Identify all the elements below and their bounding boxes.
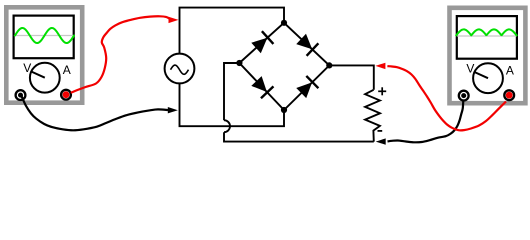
wire: bridge right vertex to resistor top	[329, 65, 374, 89]
wire: left meter red lead	[71, 16, 170, 93]
diode D2 (top-to-right edge, cathode at right vertex)	[296, 34, 318, 56]
junction node: bridge top vertex	[281, 20, 287, 26]
resistor R-load	[365, 90, 380, 142]
right meter body	[450, 8, 526, 103]
arrowhead: right black probe tip	[376, 138, 386, 144]
AC source V1	[165, 54, 195, 84]
diode D3 (left-to-bottom edge, cathode at bottom vertex)	[251, 76, 273, 98]
left meter red terminal	[61, 90, 71, 100]
wire hop over AC bottom rail	[224, 120, 230, 132]
wire: right meter red lead	[387, 66, 506, 130]
junction node: bridge bottom vertex	[281, 107, 287, 113]
right meter dial	[473, 63, 503, 93]
left meter dial	[30, 63, 60, 93]
wire: right meter black lead	[388, 101, 464, 143]
diode D4 (bottom-to-right edge, cathode at right vertex)	[296, 76, 318, 98]
left meter black terminal	[16, 90, 26, 100]
arrowhead: right red probe tip	[375, 63, 385, 69]
right meter black terminal	[459, 91, 469, 101]
wire: AC source bottom to bridge bottom vertex	[180, 83, 285, 126]
minus polarity label	[378, 130, 383, 132]
plus polarity label	[378, 87, 386, 95]
arrowhead: left black probe tip	[168, 107, 178, 113]
right meter screen	[456, 16, 517, 59]
svg-text:A: A	[506, 63, 514, 77]
left meter screen	[14, 16, 74, 59]
arrowhead: left red probe tip	[169, 17, 179, 23]
diode D1 (left-to-top edge, cathode at top vertex)	[251, 31, 273, 53]
junction node: bridge right vertex	[326, 62, 332, 68]
right meter red terminal	[504, 90, 514, 100]
diode bridge diamond wires	[239, 23, 329, 110]
wire: left meter black lead	[22, 96, 169, 130]
left meter body	[6, 7, 82, 102]
wire: bridge left vertex toward bottom rail	[224, 63, 239, 120]
svg-text:A: A	[63, 63, 71, 77]
wire: bottom rail to resistor bottom	[224, 132, 374, 141]
junction node: bridge left vertex	[236, 60, 242, 66]
wire: AC source top to bridge top vertex	[180, 8, 285, 54]
